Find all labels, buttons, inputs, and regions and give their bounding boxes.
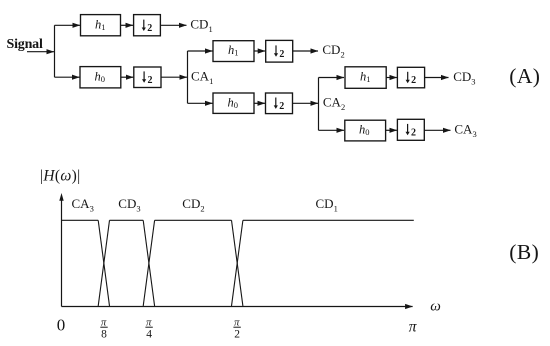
svg-text:2: 2 xyxy=(148,75,153,86)
crossover at pi/8 xyxy=(98,220,109,306)
svg-text:Signal: Signal xyxy=(7,37,43,52)
wire h1 to downsampler level 3 top xyxy=(386,77,397,79)
filter h0 level 2 xyxy=(213,93,254,113)
wire signal to junction xyxy=(27,51,54,53)
svg-text:CD2: CD2 xyxy=(322,42,344,60)
downsampler 2 level 3 top xyxy=(397,67,424,88)
svg-text:CA3: CA3 xyxy=(72,196,94,214)
svg-text:0: 0 xyxy=(57,315,66,334)
svg-text:CA3: CA3 xyxy=(454,122,476,140)
filter h1 level 1 xyxy=(81,15,121,36)
x axis xyxy=(62,306,413,308)
wire to filter h1 level 1 xyxy=(55,24,81,26)
filter h0 level 3 xyxy=(345,120,386,141)
downsampler 2 level 2 top xyxy=(266,40,293,62)
svg-text:2: 2 xyxy=(411,75,416,86)
label (A) xyxy=(509,64,540,88)
crossover at pi/2 xyxy=(232,220,243,306)
response band CD3 flat top xyxy=(110,219,144,221)
svg-text:CD2: CD2 xyxy=(182,196,204,214)
svg-text:4: 4 xyxy=(146,328,152,340)
svg-text:h1: h1 xyxy=(228,43,239,58)
y axis xyxy=(61,200,63,307)
svg-text:h1: h1 xyxy=(360,70,371,85)
wire to node CA2 xyxy=(293,102,319,104)
wire to node CD2 xyxy=(293,50,318,52)
wire to node CA1 xyxy=(161,76,187,78)
svg-text:h0: h0 xyxy=(95,69,106,84)
wire to filter h1 level 2 xyxy=(188,50,213,52)
svg-text:CD3: CD3 xyxy=(453,69,475,87)
svg-text:8: 8 xyxy=(101,328,107,340)
label band CD3 xyxy=(118,196,140,214)
svg-text:2: 2 xyxy=(411,127,416,138)
filter h0 level 1 xyxy=(80,67,121,88)
downsampler 2 level 1 bottom xyxy=(134,67,161,88)
svg-text:2: 2 xyxy=(279,101,284,112)
wire junction 2 vertical xyxy=(187,51,189,103)
svg-text:(A): (A) xyxy=(509,64,540,88)
wire to node CD1 xyxy=(160,24,186,26)
filter h1 level 2 xyxy=(213,41,254,62)
node CA1 xyxy=(191,68,213,86)
node CA3 xyxy=(454,122,476,140)
svg-text:h1: h1 xyxy=(95,17,106,32)
svg-text:2: 2 xyxy=(279,49,284,60)
svg-text:(B): (B) xyxy=(509,240,539,264)
wire to filter h1 level 3 xyxy=(319,77,345,79)
tick label pi/8 xyxy=(100,318,107,341)
svg-text:ω: ω xyxy=(430,299,441,315)
svg-text:CD3: CD3 xyxy=(118,196,140,214)
wire h0 to downsampler level 1 bottom xyxy=(121,76,134,78)
svg-text:π: π xyxy=(409,319,418,336)
wire h0 to downsampler level 2 bottom xyxy=(254,102,265,104)
wire h0 to downsampler level 3 bottom xyxy=(386,129,397,131)
wire junction 3 vertical xyxy=(318,78,320,131)
tick label pi xyxy=(409,319,418,336)
filter h1 level 3 xyxy=(345,67,386,89)
wire to filter h0 level 3 xyxy=(319,129,345,131)
svg-text:CA1: CA1 xyxy=(191,68,213,86)
label omega axis xyxy=(430,299,441,315)
wire to node CA3 xyxy=(424,129,450,131)
tick label pi/2 xyxy=(233,318,240,341)
node CD2 xyxy=(322,42,344,60)
node CD3 xyxy=(453,69,475,87)
wire to filter h0 level 1 xyxy=(55,76,80,78)
crossover at pi/4 xyxy=(143,220,154,306)
wire junction 1 vertical xyxy=(54,25,56,77)
label 0 origin xyxy=(57,315,66,334)
label band CD2 xyxy=(182,196,204,214)
svg-text:CA2: CA2 xyxy=(323,94,345,112)
response band CD1 flat top xyxy=(243,219,414,221)
response band CA3 flat top xyxy=(62,219,99,221)
response band CD2 flat top xyxy=(155,219,232,221)
svg-text:CD1: CD1 xyxy=(316,196,338,214)
svg-text:|H(ω)|: |H(ω)| xyxy=(40,168,81,185)
wire h1 to downsampler level 2 top xyxy=(254,50,265,52)
downsampler 2 level 2 bottom xyxy=(266,93,293,114)
label band CA3 xyxy=(72,196,94,214)
label (B) xyxy=(509,240,539,264)
svg-text:h0: h0 xyxy=(359,123,370,138)
node CD1 xyxy=(190,17,212,34)
wire h1 to downsampler level 1 top xyxy=(121,24,134,26)
label band CD1 xyxy=(316,196,338,214)
downsampler 2 level 1 top xyxy=(134,15,161,36)
svg-text:CD1: CD1 xyxy=(190,17,212,34)
label |H(omega)| axis title xyxy=(40,168,81,185)
svg-text:h0: h0 xyxy=(228,95,239,110)
node Signal input xyxy=(7,37,43,52)
svg-text:2: 2 xyxy=(234,328,240,340)
wire to filter h0 level 2 xyxy=(188,102,213,104)
downsampler 2 level 3 bottom xyxy=(397,119,424,140)
tick label pi/4 xyxy=(145,318,152,341)
node CA2 xyxy=(323,94,345,112)
svg-text:2: 2 xyxy=(147,23,152,34)
wire to node CD3 xyxy=(425,77,449,79)
